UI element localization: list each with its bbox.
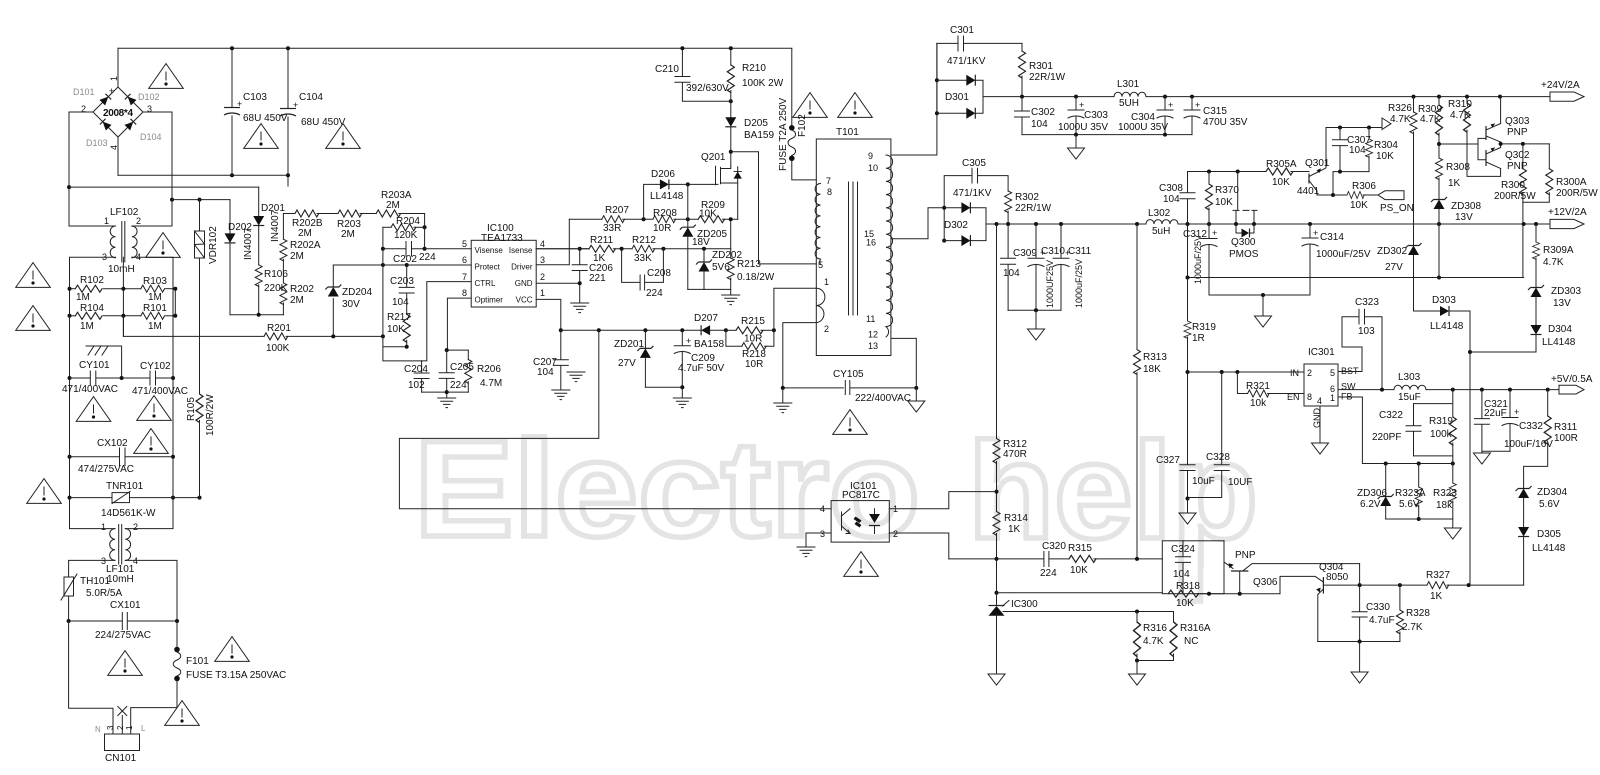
svg-text:BA159: BA159 bbox=[744, 130, 774, 141]
ground: C312/C314 bbox=[1262, 295, 1264, 315]
svg-text:C310: C310 bbox=[1041, 246, 1065, 257]
svg-text:4.7uF: 4.7uF bbox=[1369, 615, 1395, 626]
ground: opto pin3 bbox=[797, 547, 815, 557]
svg-text:R103: R103 bbox=[143, 276, 167, 287]
ground: C330 bbox=[1359, 642, 1361, 672]
resistor R215 10R bbox=[726, 316, 774, 345]
capacitor C209 4.7uF 50V bbox=[674, 330, 724, 387]
svg-text:N: N bbox=[95, 725, 101, 734]
wire: LF101 pin4 down bbox=[125, 560, 177, 621]
svg-text:3: 3 bbox=[820, 529, 825, 539]
wire: IC100 pin8 Optimer to C205/R206 bbox=[447, 298, 472, 350]
svg-text:LL4148: LL4148 bbox=[1430, 321, 1464, 332]
resistor R101 1M bbox=[123, 303, 175, 332]
svg-text:R208: R208 bbox=[653, 208, 677, 219]
wire: IC301 IN line bbox=[1188, 371, 1305, 373]
svg-text:3: 3 bbox=[540, 255, 545, 265]
wire: right line down pin4 chain bbox=[172, 378, 174, 498]
wire: IC100 pin6 Protect line bbox=[333, 264, 471, 266]
resistor R203A 2M bbox=[376, 190, 424, 227]
svg-text:R323A: R323A bbox=[1395, 488, 1426, 499]
svg-text:220K: 220K bbox=[264, 283, 288, 294]
svg-text:22R/1W: 22R/1W bbox=[1015, 203, 1052, 214]
svg-text:R302: R302 bbox=[1015, 192, 1039, 203]
svg-text:R327: R327 bbox=[1426, 570, 1450, 581]
svg-text:1K: 1K bbox=[1008, 524, 1021, 535]
wire: IC100 pin7 CTRL to C204 bbox=[422, 282, 472, 361]
svg-text:471/400VAC: 471/400VAC bbox=[132, 386, 188, 397]
svg-text:5: 5 bbox=[818, 260, 823, 270]
svg-text:R319: R319 bbox=[1192, 322, 1216, 333]
svg-text:R217: R217 bbox=[387, 312, 411, 323]
resistor R316 4.7K bbox=[1134, 612, 1168, 661]
svg-text:1: 1 bbox=[104, 216, 109, 226]
watermark p descender extension bbox=[1181, 552, 1201, 601]
warning triangle (left margin lower) bbox=[16, 306, 51, 331]
svg-text:IC300: IC300 bbox=[1011, 599, 1038, 610]
wire: snubber node to T101 pin5 bbox=[731, 152, 817, 264]
capacitor CX102 474/275VAC bbox=[70, 438, 174, 475]
capacitor C208 224 bbox=[622, 249, 672, 299]
svg-text:LF102: LF102 bbox=[110, 207, 139, 218]
common mode choke LF102 10mH bbox=[102, 207, 141, 275]
wire: C321/C332 ground bbox=[1482, 450, 1510, 453]
svg-text:5.6V: 5.6V bbox=[1539, 499, 1560, 510]
diode D201 IN4007 bbox=[253, 187, 285, 265]
svg-text:R207: R207 bbox=[605, 205, 629, 216]
capacitor CY102 471/400VAC bbox=[132, 361, 188, 397]
wire: line to VDR102/D202 bbox=[172, 199, 230, 201]
svg-text:4.7K: 4.7K bbox=[1420, 114, 1441, 125]
svg-text:FUSE T2A 250V: FUSE T2A 250V bbox=[778, 97, 789, 171]
warning triangle (right of F101) bbox=[215, 637, 250, 662]
transistor Q304 8050 bbox=[1280, 562, 1360, 642]
fuse F101 FUSE T3.15A 250VAC bbox=[131, 621, 287, 734]
svg-text:10K: 10K bbox=[1176, 598, 1194, 609]
svg-text:2: 2 bbox=[893, 529, 898, 539]
svg-text:4.7M: 4.7M bbox=[480, 378, 502, 389]
svg-text:200R/5W: 200R/5W bbox=[1494, 191, 1536, 202]
svg-text:2M: 2M bbox=[341, 229, 355, 240]
svg-text:C203: C203 bbox=[390, 276, 414, 287]
ground: IC300 bbox=[988, 674, 1005, 685]
resistor R213 0.18/2W bbox=[727, 249, 775, 290]
ground: 24V filter bbox=[1075, 135, 1077, 148]
svg-text:+: + bbox=[1313, 228, 1318, 238]
svg-text:R210: R210 bbox=[742, 63, 766, 74]
svg-text:5: 5 bbox=[1330, 368, 1335, 378]
svg-text:104: 104 bbox=[1173, 569, 1190, 580]
svg-text:R306: R306 bbox=[1352, 181, 1376, 192]
transistor Q306 PNP bbox=[1224, 541, 1360, 594]
capacitor C304 1000U 35V bbox=[1118, 97, 1173, 135]
chassis ground at CY101 bbox=[86, 346, 124, 380]
svg-text:471/1KV: 471/1KV bbox=[947, 56, 986, 67]
wire: IC100 pin2 GND bbox=[536, 282, 580, 284]
wire: 24V filter bottom rail bbox=[1022, 134, 1192, 136]
diode D304 LL4148 bbox=[1531, 324, 1576, 352]
wire: R312 sense chain from +12V bbox=[996, 224, 998, 439]
svg-text:Driver: Driver bbox=[511, 263, 533, 272]
svg-text:1M: 1M bbox=[76, 292, 90, 303]
svg-text:R309A: R309A bbox=[1543, 245, 1574, 256]
wire: C307/R304 bottom to emitter bbox=[1333, 172, 1369, 195]
resistor R304 10K bbox=[1366, 128, 1399, 172]
wire: left line to CN101 bbox=[69, 621, 113, 734]
svg-text:4: 4 bbox=[820, 504, 825, 514]
svg-text:LL4148: LL4148 bbox=[1532, 543, 1566, 554]
ground: CY105 right (triangle) bbox=[915, 388, 917, 401]
resistor R309A 4.7K bbox=[1533, 224, 1574, 287]
svg-text:4401: 4401 bbox=[1297, 186, 1320, 197]
capacitor CY101 471/400VAC bbox=[62, 360, 150, 395]
svg-text:5.0R/5A: 5.0R/5A bbox=[86, 588, 122, 599]
connector CN101 bbox=[95, 724, 146, 764]
resistor R315 10K bbox=[1049, 543, 1162, 576]
svg-text:+24V/2A: +24V/2A bbox=[1541, 80, 1580, 91]
svg-text:L303: L303 bbox=[1398, 372, 1421, 383]
capacitor C314 1000uF/25V bbox=[1302, 224, 1371, 295]
wire: Q301 collector line bbox=[1326, 127, 1382, 129]
svg-text:18k: 18k bbox=[1436, 500, 1453, 511]
diode D206 LL4148 bbox=[644, 169, 718, 219]
svg-text:2008*4: 2008*4 bbox=[103, 108, 133, 119]
svg-text:2: 2 bbox=[116, 725, 125, 730]
svg-text:0.18/2W: 0.18/2W bbox=[737, 272, 775, 283]
resistor R319 1R bbox=[1184, 278, 1216, 373]
svg-text:2: 2 bbox=[540, 272, 545, 282]
svg-text:104: 104 bbox=[1349, 145, 1366, 156]
warning triangle (below C103) bbox=[244, 124, 279, 149]
svg-text:R213: R213 bbox=[737, 259, 761, 270]
wire: low line from R319-1R to R300 bbox=[1188, 277, 1524, 279]
svg-text:103: 103 bbox=[1358, 326, 1375, 337]
svg-text:1000uF/25V: 1000uF/25V bbox=[1193, 235, 1203, 284]
ground: bulk caps bbox=[567, 372, 585, 382]
svg-text:R310: R310 bbox=[1448, 99, 1472, 110]
svg-text:10K: 10K bbox=[1350, 200, 1368, 211]
diode D202 IN4007 bbox=[225, 200, 255, 315]
svg-text:4: 4 bbox=[1317, 396, 1322, 406]
warning triangle (near bridge) bbox=[149, 64, 184, 89]
svg-text:R319: R319 bbox=[1429, 416, 1453, 427]
capacitor C321 22uF bbox=[1474, 390, 1508, 452]
wire: primary sense ground rail bbox=[688, 289, 731, 295]
svg-text:ZD302: ZD302 bbox=[1377, 246, 1407, 257]
capacitor C301 471/1KV bbox=[937, 25, 1022, 67]
svg-text:ZD304: ZD304 bbox=[1537, 487, 1567, 498]
inductor L302 5uH bbox=[1146, 208, 1178, 237]
svg-text:2M: 2M bbox=[290, 295, 304, 306]
resistor R207 33R bbox=[569, 205, 653, 234]
fuse F102 FUSE T2A 250V bbox=[778, 48, 816, 180]
svg-text:15uF: 15uF bbox=[1398, 392, 1421, 403]
svg-text:CY105: CY105 bbox=[833, 369, 864, 380]
svg-text:14D561K-W: 14D561K-W bbox=[101, 508, 156, 519]
zener ZD205 18V bbox=[680, 184, 728, 289]
svg-text:R101: R101 bbox=[143, 303, 167, 314]
wire: R319 sense line bbox=[1187, 224, 1189, 278]
svg-text:10mH: 10mH bbox=[107, 574, 134, 585]
arrow: +5V/0.5A output bbox=[1551, 374, 1593, 394]
zener ZD201 27V bbox=[614, 330, 653, 387]
wire: T101 pin2 to CY105 bbox=[783, 323, 817, 388]
capacitor C315 470U 35V bbox=[1184, 97, 1248, 135]
svg-text:2M: 2M bbox=[386, 200, 400, 211]
resistor R202B 2M bbox=[283, 210, 338, 239]
svg-text:13: 13 bbox=[868, 341, 878, 351]
svg-text:2: 2 bbox=[136, 216, 141, 226]
svg-text:10R: 10R bbox=[653, 223, 671, 234]
svg-text:10uF: 10uF bbox=[1192, 476, 1215, 487]
svg-text:T101: T101 bbox=[836, 127, 859, 138]
svg-text:Protect: Protect bbox=[475, 263, 501, 272]
warning triangle (right of CN101) bbox=[165, 701, 200, 726]
svg-text:C314: C314 bbox=[1320, 232, 1344, 243]
svg-text:6: 6 bbox=[462, 255, 467, 265]
svg-text:222/400VAC: 222/400VAC bbox=[855, 393, 911, 404]
IC100 TEA1733 bbox=[462, 223, 545, 307]
svg-text:220PF: 220PF bbox=[1372, 432, 1401, 443]
svg-text:D304: D304 bbox=[1548, 324, 1572, 335]
svg-text:10: 10 bbox=[868, 163, 878, 173]
svg-text:ZD204: ZD204 bbox=[342, 287, 372, 298]
svg-text:1: 1 bbox=[540, 288, 545, 298]
resistor R203 2M bbox=[337, 210, 376, 240]
svg-text:104: 104 bbox=[1003, 268, 1020, 279]
svg-text:4.7K: 4.7K bbox=[1143, 636, 1164, 647]
svg-text:R318: R318 bbox=[1176, 581, 1200, 592]
svg-text:1M: 1M bbox=[148, 321, 162, 332]
ground: C327/C328 bbox=[1187, 499, 1189, 513]
transistor Q301 4401 bbox=[1297, 128, 1330, 198]
svg-text:+: + bbox=[1514, 407, 1519, 417]
svg-text:R314: R314 bbox=[1004, 513, 1028, 524]
svg-text:F101: F101 bbox=[186, 656, 209, 667]
svg-text:10R: 10R bbox=[745, 359, 763, 370]
svg-text:100k: 100k bbox=[1430, 429, 1453, 440]
svg-text:R211: R211 bbox=[590, 235, 614, 246]
svg-text:R202: R202 bbox=[290, 284, 314, 295]
svg-text:1000uF/25V: 1000uF/25V bbox=[1316, 249, 1371, 260]
svg-text:5uH: 5uH bbox=[1152, 226, 1170, 237]
svg-text:+: + bbox=[686, 336, 691, 346]
resistor R208 10R bbox=[653, 208, 698, 234]
svg-text:PC817C: PC817C bbox=[842, 490, 880, 501]
warning triangle (near CX102) bbox=[134, 429, 169, 454]
warning triangle (below CY101) bbox=[76, 397, 111, 422]
svg-text:+5V/0.5A: +5V/0.5A bbox=[1551, 374, 1593, 385]
svg-text:R106: R106 bbox=[264, 269, 288, 280]
warning triangle (left of TNR101) bbox=[27, 479, 62, 504]
svg-text:IN: IN bbox=[1290, 368, 1299, 378]
warning triangle (left of F101) bbox=[108, 651, 143, 676]
svg-text:C303: C303 bbox=[1084, 110, 1108, 121]
resistor R209 10K bbox=[698, 200, 738, 223]
svg-text:D305: D305 bbox=[1537, 529, 1561, 540]
svg-text:13V: 13V bbox=[1553, 298, 1571, 309]
svg-text:D301: D301 bbox=[945, 92, 969, 103]
svg-text:22R/1W: 22R/1W bbox=[1029, 72, 1066, 83]
wire: C312/C314 bottom bbox=[1209, 294, 1310, 296]
resistor R305A 10K bbox=[1266, 159, 1309, 188]
varistor VDR102 bbox=[195, 200, 220, 264]
warning triangle (below CY105) bbox=[833, 410, 868, 435]
svg-text:+: + bbox=[1195, 100, 1200, 110]
capacitor C307 104 bbox=[1333, 128, 1372, 172]
svg-text:2: 2 bbox=[824, 324, 829, 334]
svg-text:R315: R315 bbox=[1068, 543, 1092, 554]
svg-text:104: 104 bbox=[392, 297, 409, 308]
warning triangle (left margin upper) bbox=[16, 263, 51, 288]
svg-text:1000U 35V: 1000U 35V bbox=[1118, 122, 1168, 133]
svg-text:CY101: CY101 bbox=[79, 360, 110, 371]
resistor R314 1K bbox=[993, 512, 1028, 559]
svg-text:4.7K: 4.7K bbox=[1450, 110, 1471, 121]
capacitor C320 224 bbox=[949, 541, 1067, 579]
wire: Q306 collector line down to R327 bbox=[1359, 564, 1361, 586]
ground: sense rail bbox=[722, 295, 740, 305]
resistor R218 10R bbox=[726, 328, 776, 370]
svg-text:4.7K: 4.7K bbox=[1390, 114, 1411, 125]
net flag PS_ON bbox=[1378, 191, 1414, 214]
resistor R204 120K bbox=[383, 216, 427, 241]
resistor R370 10K bbox=[1206, 172, 1240, 225]
svg-text:4: 4 bbox=[540, 239, 545, 249]
svg-text:Optimer: Optimer bbox=[475, 296, 504, 305]
capacitor C103 68U 450V bbox=[224, 48, 288, 175]
ground: C207 bbox=[552, 390, 570, 400]
wire: Q201 source to sense bbox=[731, 183, 738, 249]
wire: R217/R201 bottom link bbox=[383, 336, 422, 361]
wire: left line down to CY101/CX102 bbox=[69, 316, 71, 498]
resistor R106 220K bbox=[255, 265, 288, 315]
shunt reference IC300 bbox=[989, 593, 1039, 673]
bridge rectifier D101-D104 2008*4 bbox=[73, 48, 162, 150]
wire: LF101 pin3 to TH101 to CX101 bbox=[69, 560, 115, 621]
svg-text:11: 11 bbox=[866, 314, 875, 324]
svg-text:C205: C205 bbox=[450, 362, 474, 373]
varistor TNR101 14D561K-W bbox=[70, 481, 200, 519]
wire: LF102 pin4 down bbox=[132, 257, 173, 378]
svg-text:8050: 8050 bbox=[1326, 572, 1349, 583]
svg-text:PNP: PNP bbox=[1235, 550, 1256, 561]
ground: C205 rail bbox=[438, 398, 456, 408]
optocoupler IC101 PC817C bbox=[820, 481, 898, 542]
capacitor C202 224 bbox=[381, 227, 436, 265]
zener ZD302 27V bbox=[1377, 243, 1422, 311]
svg-text:D103: D103 bbox=[86, 138, 108, 148]
capacitor C324 104 bbox=[1171, 541, 1195, 594]
svg-text:1R: 1R bbox=[1192, 333, 1205, 344]
common mode choke LF101 10mH bbox=[101, 522, 138, 585]
svg-text:18K: 18K bbox=[1143, 364, 1161, 375]
wire: IC300 ref line to R316/R316A bbox=[1003, 611, 1174, 613]
svg-text:+: + bbox=[1168, 100, 1173, 110]
capacitor C312 1000uF/25V bbox=[1183, 224, 1217, 295]
svg-text:474/275VAC: 474/275VAC bbox=[78, 464, 134, 475]
svg-text:LL4148: LL4148 bbox=[1542, 337, 1576, 348]
dual diode D301 bbox=[935, 43, 1022, 118]
svg-text:Q301: Q301 bbox=[1305, 158, 1330, 169]
svg-text:EN: EN bbox=[1287, 392, 1300, 402]
node: junction bridge pin2 line bbox=[67, 185, 71, 189]
wire: to T101 pin1 bbox=[774, 288, 816, 330]
svg-text:10UF: 10UF bbox=[1228, 477, 1252, 488]
svg-text:C301: C301 bbox=[950, 25, 974, 36]
resistor R318 10K bbox=[1168, 581, 1280, 609]
svg-text:R215: R215 bbox=[741, 316, 765, 327]
svg-text:1M: 1M bbox=[80, 321, 94, 332]
resistor R105 100R/2W bbox=[186, 258, 216, 498]
svg-text:R301: R301 bbox=[1029, 61, 1053, 72]
svg-text:3: 3 bbox=[106, 725, 115, 730]
svg-text:1K: 1K bbox=[1448, 178, 1461, 189]
resistor R210 100K 2W bbox=[727, 46, 783, 103]
svg-text:10K: 10K bbox=[699, 209, 717, 220]
resistor R310 4.7K bbox=[1448, 97, 1501, 177]
wire: SW line to +5V bbox=[1338, 389, 1559, 391]
wire: opto pin2 to C320 line bbox=[889, 533, 949, 559]
svg-text:R304: R304 bbox=[1374, 140, 1398, 151]
resistor R300A 200R/5W bbox=[1523, 144, 1598, 202]
svg-text:IN4007: IN4007 bbox=[243, 227, 254, 260]
svg-text:R321: R321 bbox=[1246, 381, 1270, 392]
svg-text:R305A: R305A bbox=[1266, 159, 1297, 170]
wire: ZD308 node down to 277 line bbox=[1438, 224, 1440, 278]
resistor R301 22R/1W bbox=[1019, 43, 1066, 96]
svg-text:33R: 33R bbox=[603, 223, 621, 234]
svg-text:D303: D303 bbox=[1432, 295, 1456, 306]
wire: VCC to opto anode (long routing) bbox=[399, 330, 831, 509]
svg-text:221: 221 bbox=[589, 273, 606, 284]
capacitor C311 1000uF/25V bbox=[1053, 224, 1092, 310]
connector arrow at collector bbox=[1382, 118, 1391, 130]
resistor R316A NC bbox=[1135, 612, 1211, 663]
capacitor C310 1000UF25V bbox=[1028, 224, 1065, 310]
svg-text:C332: C332 bbox=[1519, 421, 1543, 432]
wire: D304 bottom link bbox=[1470, 351, 1536, 353]
wire: line to R318 bbox=[997, 592, 1163, 594]
svg-text:1: 1 bbox=[109, 76, 119, 81]
capacitor C302 104 bbox=[1015, 97, 1056, 135]
zener ZD308 13V bbox=[1431, 197, 1481, 224]
wire: Isense line R211/R212 bbox=[536, 248, 589, 250]
wire: R300 bottom to rail and low line bbox=[1522, 202, 1524, 277]
capacitor C328 10UF bbox=[1186, 372, 1253, 501]
svg-text:100K: 100K bbox=[266, 343, 290, 354]
svg-text:10K: 10K bbox=[1272, 177, 1290, 188]
svg-text:2M: 2M bbox=[290, 251, 304, 262]
svg-text:1000uF/25V: 1000uF/25V bbox=[1074, 259, 1084, 308]
svg-text:C210: C210 bbox=[655, 64, 679, 75]
wire: LF102 pin3 down to resistor block bbox=[70, 257, 116, 316]
ground: CY105 left (hatched) bbox=[782, 388, 784, 403]
svg-text:ZD306: ZD306 bbox=[1357, 488, 1387, 499]
svg-text:8: 8 bbox=[1307, 392, 1312, 402]
svg-text:R316: R316 bbox=[1143, 623, 1167, 634]
wire: bridge pin2 to LF102 pin1 bbox=[69, 112, 116, 226]
wire: FB line bbox=[1338, 397, 1453, 464]
wire: bridge pin4 down bbox=[117, 137, 119, 175]
svg-text:C315: C315 bbox=[1203, 106, 1227, 117]
svg-text:CY102: CY102 bbox=[140, 361, 171, 372]
svg-text:7: 7 bbox=[826, 176, 831, 186]
wire: bulk caps bottom rail bbox=[118, 175, 288, 186]
svg-text:FUSE T3.15A 250VAC: FUSE T3.15A 250VAC bbox=[186, 670, 286, 681]
svg-text:100R: 100R bbox=[1554, 433, 1578, 444]
svg-text:1: 1 bbox=[1330, 393, 1335, 403]
